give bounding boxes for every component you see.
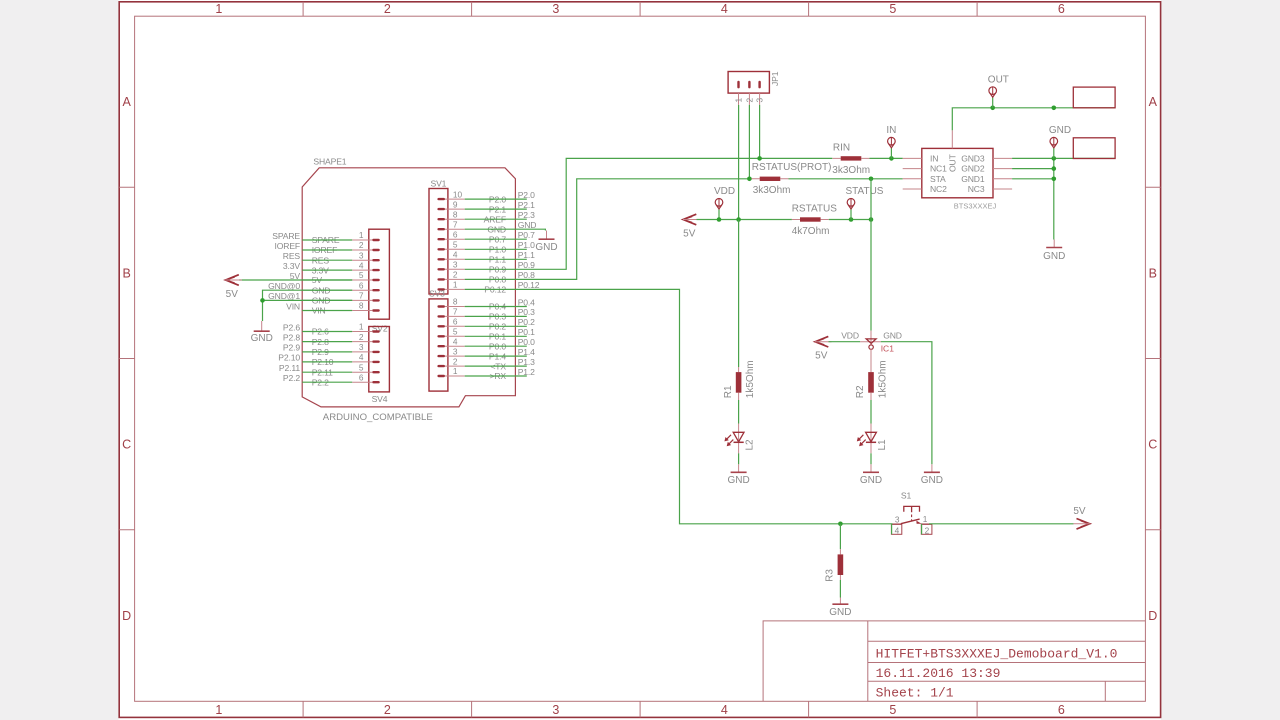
connector SV2 xyxy=(369,229,390,319)
svg-text:P2.8: P2.8 xyxy=(283,332,300,342)
supply arrow 5V (middle) xyxy=(683,214,696,225)
wire VDD segment (IC1) xyxy=(829,341,861,343)
svg-text:B: B xyxy=(123,266,131,280)
wire net P0.12 : SV1 pin1 down to switch row xyxy=(465,289,893,523)
svg-text:2: 2 xyxy=(384,703,391,717)
resistor R1 xyxy=(738,367,740,400)
wire GND@0 net xyxy=(263,290,353,300)
svg-text:GND: GND xyxy=(1043,251,1065,262)
svg-text:SV4: SV4 xyxy=(372,394,388,404)
frame row dividers xyxy=(119,186,1160,188)
wires: SV4 row stubs with net labels xyxy=(302,331,352,333)
wire net P0.8 / STA row : SV1 pin2 to RSTATUS(PROT) xyxy=(465,179,752,280)
svg-text:L2: L2 xyxy=(744,439,755,451)
svg-text:P0.2: P0.2 xyxy=(518,317,535,327)
frame column dividers xyxy=(302,2,304,718)
svg-text:1: 1 xyxy=(734,98,744,103)
svg-text:6: 6 xyxy=(1058,703,1065,717)
svg-text:GND: GND xyxy=(518,220,537,230)
svg-text:P0.3: P0.3 xyxy=(518,307,535,317)
wire GND3 row to pad xyxy=(1012,157,1115,159)
ground symbol (left of SV2) xyxy=(261,321,263,331)
wire STA net: resistor to IC xyxy=(789,178,903,180)
svg-text:2: 2 xyxy=(925,525,930,535)
svg-text:P2.6: P2.6 xyxy=(283,322,300,332)
wire IN net: RIN to IC xyxy=(870,157,903,159)
svg-text:RSTATUS(PROT): RSTATUS(PROT) xyxy=(752,162,832,173)
ground symbol (SV1 pin7) xyxy=(546,231,548,240)
svg-text:7: 7 xyxy=(453,219,458,229)
wire JP1 pin2 down to STA row xyxy=(748,105,750,179)
wires: SV2 row stubs with net labels xyxy=(302,239,352,241)
svg-text:P2.3: P2.3 xyxy=(518,210,535,220)
svg-text:6: 6 xyxy=(453,317,458,327)
wire JP1 pin1 down to 5V row xyxy=(738,105,740,220)
pad rectangle (GND) xyxy=(1073,138,1115,159)
svg-text:Sheet: 1/1: Sheet: 1/1 xyxy=(876,685,954,700)
svg-text:8: 8 xyxy=(359,301,364,311)
wire STATUS net right of RSTATUS xyxy=(829,219,871,221)
wires: SV3 row stubs with net labels xyxy=(465,306,527,308)
wire VDD down to R1 xyxy=(738,220,740,368)
svg-text:2: 2 xyxy=(453,270,458,280)
resistor RSTATUS xyxy=(792,219,829,221)
LED L2 xyxy=(733,432,744,442)
svg-text:P1.1: P1.1 xyxy=(518,250,535,260)
svg-text:P2.2: P2.2 xyxy=(283,373,300,383)
resistor RIN xyxy=(833,157,870,159)
svg-text:16.11.2016 13:39: 16.11.2016 13:39 xyxy=(876,666,1001,681)
svg-text:1: 1 xyxy=(453,280,458,290)
svg-text:GND2: GND2 xyxy=(961,164,985,174)
svg-text:5V: 5V xyxy=(1073,506,1086,517)
supply balloon OUT xyxy=(992,97,994,108)
svg-text:2: 2 xyxy=(745,98,755,103)
wire OUT net xyxy=(952,108,1115,130)
svg-text:RSTATUS: RSTATUS xyxy=(792,204,838,215)
svg-text:4: 4 xyxy=(453,250,458,260)
svg-text:10: 10 xyxy=(453,189,463,199)
wire VDD row xyxy=(697,219,792,221)
svg-text:GND: GND xyxy=(860,475,882,486)
wire R2 lead from IC1 xyxy=(870,349,872,372)
wires: SV1 row stubs with net labels xyxy=(465,198,527,200)
junction VDD/R1 xyxy=(736,217,741,222)
svg-text:P1.4: P1.4 xyxy=(518,347,535,357)
svg-text:A: A xyxy=(123,95,132,109)
LED L1 xyxy=(866,432,877,442)
ground symbol (R3) xyxy=(839,598,841,605)
svg-text:SPARE: SPARE xyxy=(272,231,300,241)
wire R1 to L2 xyxy=(738,400,740,424)
svg-text:3: 3 xyxy=(755,98,765,103)
svg-text:C: C xyxy=(1148,438,1157,452)
wire GND segment (IC1) xyxy=(881,342,932,465)
svg-text:S1: S1 xyxy=(901,490,912,500)
junction OUT balloon xyxy=(990,106,995,111)
svg-text:P0.1: P0.1 xyxy=(518,327,535,337)
connector SV3 xyxy=(429,299,448,391)
svg-text:5: 5 xyxy=(889,703,896,717)
S1 pin boxes 4 and 2 xyxy=(891,524,901,534)
svg-text:NC1: NC1 xyxy=(930,164,947,174)
connector SV4 xyxy=(369,327,390,392)
svg-text:5: 5 xyxy=(359,270,364,280)
svg-text:3: 3 xyxy=(359,250,364,260)
svg-text:P0.7: P0.7 xyxy=(518,230,535,240)
resistor R2 xyxy=(868,372,874,393)
svg-text:GND: GND xyxy=(1049,125,1071,136)
svg-text:7: 7 xyxy=(359,291,364,301)
svg-text:3: 3 xyxy=(359,342,364,352)
svg-text:L1: L1 xyxy=(877,439,888,451)
frame inner border xyxy=(135,16,1146,701)
ground symbol (below IC) xyxy=(1053,240,1055,248)
svg-text:OUT: OUT xyxy=(947,153,957,172)
svg-text:4: 4 xyxy=(895,525,900,535)
svg-text:P2.9: P2.9 xyxy=(283,343,300,353)
wire GND1 row xyxy=(1012,178,1054,180)
svg-text:P0.0: P0.0 xyxy=(518,337,535,347)
svg-text:JP1: JP1 xyxy=(770,71,780,86)
svg-text:IC1: IC1 xyxy=(881,344,895,354)
svg-text:GND: GND xyxy=(727,475,749,486)
svg-text:1: 1 xyxy=(215,703,222,717)
svg-text:D: D xyxy=(122,609,131,623)
svg-text:C: C xyxy=(122,438,131,452)
svg-text:3: 3 xyxy=(552,703,559,717)
svg-text:5V: 5V xyxy=(226,289,239,300)
supply arrow 5V (IC1) xyxy=(815,336,828,347)
resistor RSTATUS(PROT) xyxy=(752,178,789,180)
svg-text:5: 5 xyxy=(359,362,364,372)
svg-text:2: 2 xyxy=(384,2,391,16)
svg-text:GND1: GND1 xyxy=(961,174,985,184)
svg-text:B: B xyxy=(1149,266,1157,280)
connector SV1 xyxy=(429,189,448,295)
svg-text:1k5Ohm: 1k5Ohm xyxy=(877,360,888,398)
svg-text:5: 5 xyxy=(453,327,458,337)
svg-text:VIN: VIN xyxy=(286,301,300,311)
svg-text:1: 1 xyxy=(215,2,222,16)
svg-text:R3: R3 xyxy=(825,569,836,582)
svg-text:4: 4 xyxy=(359,352,364,362)
svg-text:IN: IN xyxy=(886,125,896,136)
supply arrow 5V (right) xyxy=(1077,519,1090,530)
wire R2 to L1 xyxy=(870,400,872,424)
svg-text:P0.4: P0.4 xyxy=(518,297,535,307)
connector JP1 xyxy=(728,72,769,94)
svg-text:4k7Ohm: 4k7Ohm xyxy=(792,226,830,237)
svg-text:5V: 5V xyxy=(290,271,301,281)
IC left pin stubs: IN NC1 STA NC2 xyxy=(903,157,922,159)
supply balloon VDD xyxy=(718,209,720,220)
svg-text:3: 3 xyxy=(895,514,900,524)
wire 5V net to SV2 pin5 xyxy=(239,279,352,281)
ground symbol (L1) xyxy=(870,464,872,472)
svg-text:6: 6 xyxy=(359,372,364,382)
junction OUT/pad xyxy=(1052,106,1057,111)
junction IN balloon xyxy=(889,156,894,161)
svg-text:IN: IN xyxy=(930,153,938,163)
svg-text:P0.12: P0.12 xyxy=(518,280,540,290)
svg-text:1k5Ohm: 1k5Ohm xyxy=(745,360,756,398)
junction STA/vertical xyxy=(869,177,874,182)
svg-text:4: 4 xyxy=(359,260,364,270)
supply balloon GND xyxy=(1053,148,1055,159)
svg-text:GND@1: GND@1 xyxy=(268,291,300,301)
svg-text:HITFET+BTS3XXXEJ_Demoboard_V1.: HITFET+BTS3XXXEJ_Demoboard_V1.0 xyxy=(876,647,1118,662)
supply balloon IN xyxy=(890,148,892,159)
svg-text:4: 4 xyxy=(453,336,458,346)
svg-text:P2.0: P2.0 xyxy=(518,190,535,200)
svg-text:9: 9 xyxy=(453,199,458,209)
wire R3 to ground xyxy=(839,580,841,598)
junction JP1.2/STA row xyxy=(747,177,752,182)
wire GND net from SV1 pin 7 xyxy=(465,229,546,230)
svg-text:1: 1 xyxy=(359,322,364,332)
junction STATUS/vertical xyxy=(869,217,874,222)
svg-text:GND: GND xyxy=(921,475,943,486)
svg-text:6: 6 xyxy=(1058,2,1065,16)
svg-text:3k3Ohm: 3k3Ohm xyxy=(832,165,870,176)
junction GND@1 xyxy=(260,298,265,303)
svg-text:A: A xyxy=(1149,95,1158,109)
svg-text:NC3: NC3 xyxy=(968,184,985,194)
svg-text:4: 4 xyxy=(721,703,728,717)
IC1 supply pins symbol xyxy=(870,179,872,331)
svg-text:5V: 5V xyxy=(815,351,828,362)
svg-text:2: 2 xyxy=(453,356,458,366)
shape SHAPE1 (board outline) xyxy=(302,168,515,407)
svg-text:2: 2 xyxy=(359,332,364,342)
svg-text:P1.3: P1.3 xyxy=(518,357,535,367)
svg-text:STA: STA xyxy=(930,174,946,184)
svg-text:STATUS: STATUS xyxy=(846,186,884,197)
svg-text:SV1: SV1 xyxy=(431,178,447,188)
svg-text:3: 3 xyxy=(453,346,458,356)
IC right pin stubs: GND3 GND2 GND1 NC3 xyxy=(993,157,1012,159)
svg-text:3k3Ohm: 3k3Ohm xyxy=(753,185,791,196)
svg-text:P2.1: P2.1 xyxy=(518,200,535,210)
svg-text:SHAPE1: SHAPE1 xyxy=(313,157,346,167)
svg-text:P2.11: P2.11 xyxy=(279,363,300,373)
junction GND2 xyxy=(1052,166,1057,171)
svg-text:GND: GND xyxy=(535,242,557,253)
svg-text:P0.8: P0.8 xyxy=(518,270,535,280)
junction GND balloon xyxy=(1052,156,1057,161)
svg-text:6: 6 xyxy=(359,280,364,290)
svg-text:ARDUINO_COMPATIBLE: ARDUINO_COMPATIBLE xyxy=(323,412,433,423)
svg-text:VDD: VDD xyxy=(841,331,859,341)
svg-text:R2: R2 xyxy=(855,385,866,398)
IC top pin stub OUT xyxy=(951,130,953,148)
svg-text:P1.2: P1.2 xyxy=(518,367,535,377)
junction JP1.3/IN row xyxy=(757,156,762,161)
svg-text:GND: GND xyxy=(829,607,851,618)
svg-text:P2.10: P2.10 xyxy=(278,353,300,363)
svg-text:GND: GND xyxy=(883,331,902,341)
svg-text:1: 1 xyxy=(453,366,458,376)
wire S1 to 5V arrow xyxy=(929,523,1074,525)
svg-text:OUT: OUT xyxy=(988,75,1009,86)
svg-text:5V: 5V xyxy=(683,228,696,239)
supply balloon STATUS xyxy=(850,209,852,220)
svg-text:P1.0: P1.0 xyxy=(518,240,535,250)
svg-text:RES: RES xyxy=(283,251,301,261)
svg-text:6: 6 xyxy=(453,229,458,239)
ground symbol (L2) xyxy=(738,464,740,472)
svg-text:3: 3 xyxy=(453,260,458,270)
svg-text:8: 8 xyxy=(453,209,458,219)
junction GND1 xyxy=(1052,177,1057,182)
svg-text:3.3V: 3.3V xyxy=(283,261,300,271)
svg-text:3: 3 xyxy=(552,2,559,16)
svg-text:BTS3XXXEJ: BTS3XXXEJ xyxy=(954,202,997,211)
svg-text:D: D xyxy=(1148,609,1157,623)
wire net P0.9 / IN : SV1 pin3 up to RIN row xyxy=(465,158,833,269)
svg-text:7: 7 xyxy=(453,307,458,317)
wire JP1 pin3 down to IN row xyxy=(759,105,761,158)
svg-text:IOREF: IOREF xyxy=(274,241,300,251)
junction P0.12/R3 xyxy=(838,522,843,527)
svg-text:RIN: RIN xyxy=(833,143,850,154)
pad rectangle (OUT) xyxy=(1073,87,1115,108)
svg-text:GND3: GND3 xyxy=(961,153,985,163)
supply arrow 5V (left) xyxy=(226,275,239,286)
svg-text:NC2: NC2 xyxy=(930,184,947,194)
svg-text:1: 1 xyxy=(359,230,364,240)
wire GND vertical xyxy=(1053,158,1055,239)
svg-text:GND: GND xyxy=(251,333,273,344)
svg-text:5: 5 xyxy=(453,240,458,250)
svg-text:P0.9: P0.9 xyxy=(518,260,535,270)
ground symbol (IC1) xyxy=(931,464,933,472)
svg-text:1: 1 xyxy=(923,514,928,524)
svg-text:SV3: SV3 xyxy=(429,289,445,299)
wire GND@1 net xyxy=(263,300,353,321)
svg-text:GND@0: GND@0 xyxy=(268,281,300,291)
wire GND2 row xyxy=(1012,168,1054,170)
svg-text:5: 5 xyxy=(889,2,896,16)
svg-text:VDD: VDD xyxy=(714,186,735,197)
title block frame xyxy=(763,621,1145,701)
wire L2 to ground xyxy=(738,453,740,464)
op-amp/IC BTS3XXXEJ power switch xyxy=(922,148,993,197)
wire L1 to ground xyxy=(870,453,872,464)
svg-text:8: 8 xyxy=(453,297,458,307)
junction STATUS balloon xyxy=(849,217,854,222)
junction VDD balloon xyxy=(717,217,722,222)
svg-text:2: 2 xyxy=(359,240,364,250)
svg-text:4: 4 xyxy=(721,2,728,16)
resistor R3 xyxy=(839,524,841,549)
svg-text:R1: R1 xyxy=(723,385,734,398)
